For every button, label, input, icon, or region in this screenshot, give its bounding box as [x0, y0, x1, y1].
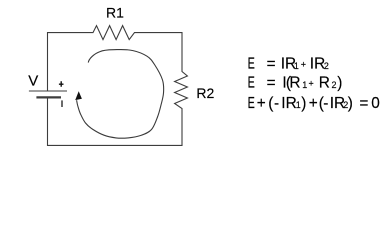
svg-text:IR: IR	[281, 95, 296, 112]
svg-text:1: 1	[296, 100, 301, 110]
svg-text:=: =	[359, 95, 368, 112]
svg-text:-: -	[274, 95, 279, 112]
svg-text:=: =	[267, 75, 276, 92]
svg-text:-: -	[323, 95, 328, 112]
svg-text:V: V	[28, 72, 38, 89]
svg-text:2: 2	[324, 61, 329, 71]
svg-text:1: 1	[294, 61, 299, 71]
svg-text:=: =	[267, 55, 276, 72]
svg-text:R1: R1	[106, 5, 124, 21]
svg-text:): )	[348, 95, 353, 112]
svg-text:0: 0	[371, 95, 380, 112]
svg-text:+: +	[309, 79, 314, 89]
svg-text:R2: R2	[196, 85, 214, 101]
svg-text:+: +	[257, 95, 266, 112]
svg-text:R: R	[319, 75, 330, 92]
svg-text:): )	[301, 95, 306, 112]
svg-text:1: 1	[302, 80, 307, 90]
svg-text:E: E	[248, 75, 255, 92]
svg-text:2: 2	[332, 80, 337, 90]
svg-text:+: +	[301, 60, 306, 70]
svg-text:E: E	[248, 55, 255, 72]
svg-text:): )	[337, 75, 342, 92]
svg-text:E: E	[248, 95, 255, 112]
svg-text:IR: IR	[310, 55, 325, 72]
svg-text:R: R	[289, 75, 300, 92]
svg-text:+: +	[309, 95, 318, 112]
